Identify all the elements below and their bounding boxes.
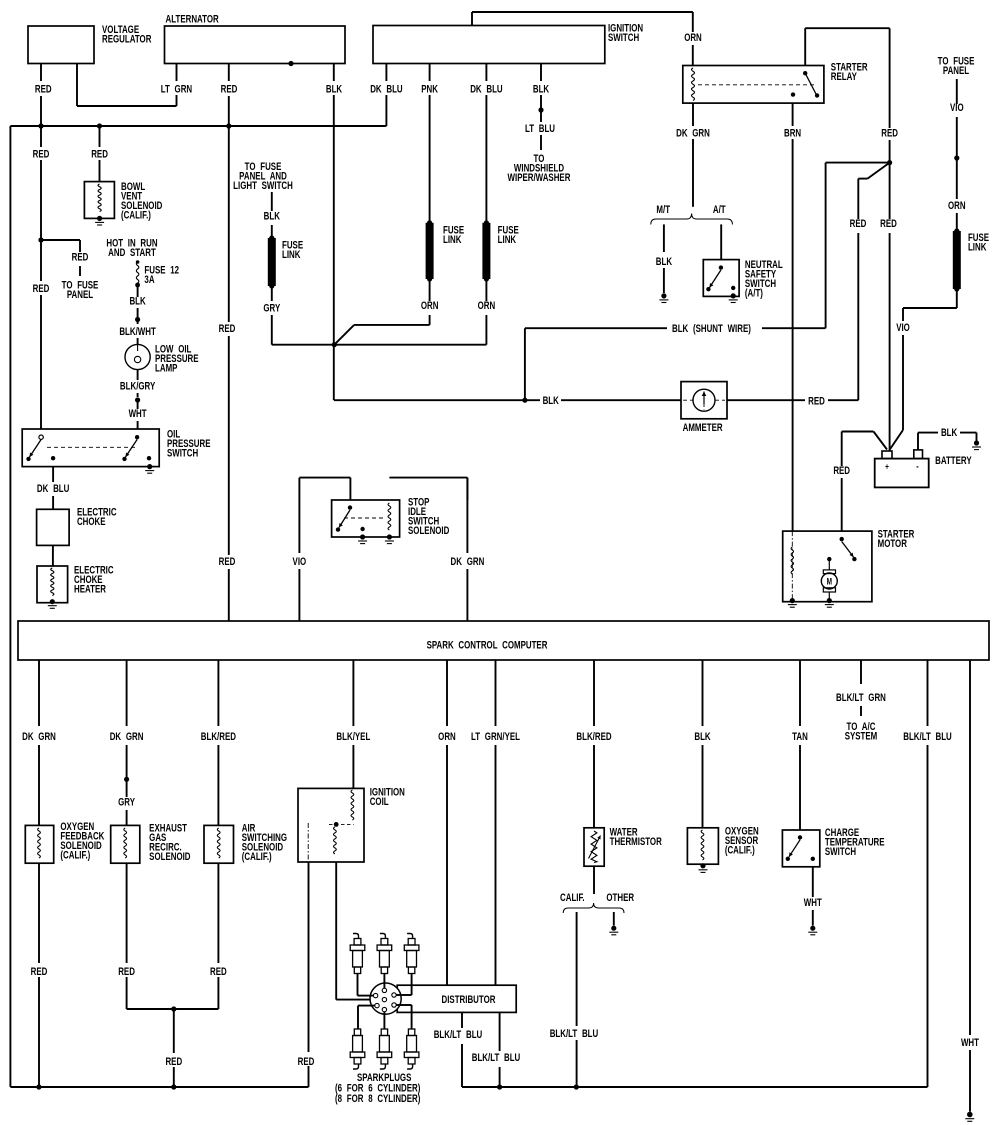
- svg-text:MOTOR: MOTOR: [878, 538, 907, 551]
- svg-text:RED: RED: [833, 465, 850, 478]
- svg-text:BLK/GRY: BLK/GRY: [120, 380, 156, 393]
- svg-text:DK BLU: DK BLU: [470, 83, 502, 96]
- svg-text:BLK: BLK: [656, 256, 672, 269]
- svg-text:+: +: [885, 461, 889, 471]
- svg-text:RED: RED: [118, 966, 135, 979]
- svg-text:SOLENOID: SOLENOID: [149, 851, 190, 864]
- svg-text:DK GRN: DK GRN: [22, 731, 56, 744]
- svg-text:(8 FOR 8 CYLINDER): (8 FOR 8 CYLINDER): [335, 1093, 420, 1106]
- svg-text:LINK: LINK: [443, 234, 462, 247]
- svg-text:RED: RED: [91, 148, 108, 161]
- svg-text:SOLENOID: SOLENOID: [408, 525, 449, 538]
- svg-text:A/T: A/T: [713, 204, 726, 217]
- svg-text:VIO: VIO: [293, 556, 307, 569]
- svg-text:ALTERNATOR: ALTERNATOR: [166, 13, 219, 26]
- svg-text:BLK/LT BLU: BLK/LT BLU: [434, 1029, 483, 1042]
- svg-text:RED: RED: [33, 148, 50, 161]
- svg-text:BLK/LT BLU: BLK/LT BLU: [550, 1028, 599, 1041]
- svg-text:WHT: WHT: [961, 1037, 979, 1050]
- svg-text:RED: RED: [880, 218, 897, 231]
- svg-text:BRN: BRN: [784, 127, 801, 140]
- svg-text:PNK: PNK: [421, 83, 438, 96]
- svg-text:RED: RED: [33, 283, 50, 296]
- svg-text:RED: RED: [210, 966, 227, 979]
- svg-text:OTHER: OTHER: [606, 892, 634, 905]
- svg-text:BLK/LT BLU: BLK/LT BLU: [903, 731, 952, 744]
- svg-text:(A/T): (A/T): [745, 287, 763, 300]
- svg-text:CALIF.: CALIF.: [560, 892, 585, 905]
- svg-text:PANEL: PANEL: [943, 65, 969, 78]
- svg-text:GRY: GRY: [118, 796, 135, 809]
- svg-text:RED: RED: [72, 251, 89, 264]
- svg-text:BLK/RED: BLK/RED: [201, 731, 236, 744]
- svg-text:BLK: BLK: [129, 295, 145, 308]
- svg-text:(CALIF.): (CALIF.): [121, 209, 151, 222]
- svg-text:M/T: M/T: [656, 204, 670, 217]
- svg-text:RED: RED: [808, 395, 825, 408]
- svg-text:GRY: GRY: [263, 302, 280, 315]
- svg-text:BLK/RED: BLK/RED: [576, 731, 611, 744]
- svg-text:SYSTEM: SYSTEM: [845, 730, 878, 743]
- svg-text:LT GRN/YEL: LT GRN/YEL: [471, 731, 520, 744]
- svg-text:RED: RED: [850, 218, 867, 231]
- svg-text:ORN: ORN: [948, 200, 966, 213]
- svg-text:AND START: AND START: [108, 247, 156, 260]
- svg-text:BATTERY: BATTERY: [935, 455, 972, 468]
- svg-text:SWITCH: SWITCH: [167, 447, 198, 460]
- svg-text:-: -: [916, 460, 918, 471]
- svg-text:WIPER/WASHER: WIPER/WASHER: [508, 172, 571, 185]
- svg-text:BLK/WHT: BLK/WHT: [119, 326, 156, 339]
- svg-text:WHT: WHT: [129, 408, 147, 421]
- svg-text:THERMISTOR: THERMISTOR: [610, 836, 662, 849]
- svg-text:CHOKE: CHOKE: [77, 516, 106, 529]
- svg-text:LT GRN: LT GRN: [161, 83, 192, 96]
- svg-text:BLK: BLK: [694, 731, 710, 744]
- svg-text:BLK: BLK: [326, 83, 342, 96]
- svg-text:TAN: TAN: [792, 731, 808, 744]
- svg-text:VIO: VIO: [896, 322, 910, 335]
- svg-text:BLK/LT GRN: BLK/LT GRN: [836, 692, 886, 705]
- svg-text:3A: 3A: [144, 274, 154, 287]
- svg-text:DK BLU: DK BLU: [370, 83, 402, 96]
- svg-text:HEATER: HEATER: [74, 583, 106, 596]
- svg-text:LINK: LINK: [498, 234, 517, 247]
- svg-text:ORN: ORN: [421, 300, 439, 313]
- svg-text:BLK/YEL: BLK/YEL: [336, 731, 370, 744]
- svg-text:BLK: BLK: [941, 427, 957, 440]
- svg-text:RED: RED: [221, 83, 238, 96]
- svg-text:SPARK CONTROL COMPUTER: SPARK CONTROL COMPUTER: [427, 639, 548, 652]
- svg-text:BLK (SHUNT WIRE): BLK (SHUNT WIRE): [672, 323, 751, 336]
- svg-text:AMMETER: AMMETER: [683, 422, 723, 435]
- svg-text:BLK: BLK: [543, 395, 559, 408]
- svg-text:COIL: COIL: [370, 796, 389, 809]
- svg-text:ORN: ORN: [478, 300, 496, 313]
- svg-text:BLK: BLK: [533, 83, 549, 96]
- svg-text:RED: RED: [219, 556, 236, 569]
- svg-text:LINK: LINK: [968, 241, 987, 254]
- svg-text:PANEL: PANEL: [67, 289, 93, 302]
- svg-text:SWITCH: SWITCH: [825, 846, 856, 859]
- svg-text:VIO: VIO: [950, 102, 964, 115]
- svg-text:DK GRN: DK GRN: [110, 731, 144, 744]
- svg-text:REGULATOR: REGULATOR: [102, 34, 151, 47]
- svg-text:LIGHT SWITCH: LIGHT SWITCH: [233, 180, 293, 193]
- svg-text:LINK: LINK: [282, 249, 301, 262]
- svg-text:DK GRN: DK GRN: [451, 556, 485, 569]
- svg-text:LAMP: LAMP: [155, 362, 178, 375]
- svg-text:RED: RED: [298, 1056, 315, 1069]
- svg-text:RED: RED: [31, 966, 48, 979]
- svg-text:RED: RED: [881, 127, 898, 140]
- svg-text:SWITCH: SWITCH: [608, 32, 639, 45]
- svg-text:RELAY: RELAY: [831, 71, 858, 84]
- svg-text:(CALIF.): (CALIF.): [725, 844, 755, 857]
- svg-text:DK BLU: DK BLU: [37, 483, 69, 496]
- svg-text:M: M: [827, 576, 832, 586]
- svg-text:BLK: BLK: [264, 210, 280, 223]
- svg-text:DK GRN: DK GRN: [676, 127, 710, 140]
- svg-text:LT BLU: LT BLU: [525, 123, 555, 136]
- svg-text:WHT: WHT: [804, 897, 822, 910]
- svg-text:(CALIF.): (CALIF.): [242, 851, 272, 864]
- svg-text:RED: RED: [219, 323, 236, 336]
- svg-text:ORN: ORN: [438, 731, 456, 744]
- svg-text:ORN: ORN: [684, 32, 702, 45]
- svg-text:DISTRIBUTOR: DISTRIBUTOR: [442, 994, 496, 1007]
- svg-text:BLK/LT BLU: BLK/LT BLU: [472, 1052, 521, 1065]
- svg-text:RED: RED: [165, 1056, 182, 1069]
- svg-text:(CALIF.): (CALIF.): [60, 849, 90, 862]
- svg-text:RED: RED: [35, 83, 52, 96]
